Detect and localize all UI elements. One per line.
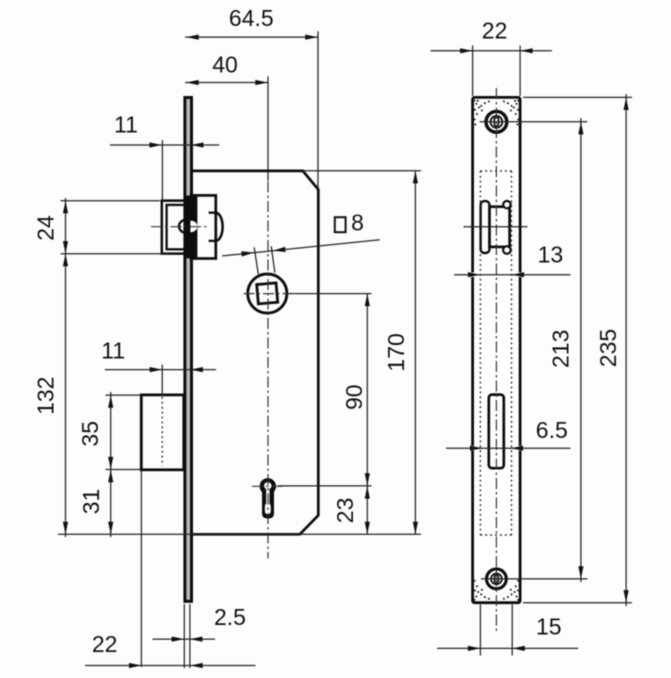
svg-text:13: 13 — [538, 242, 564, 268]
svg-text:35: 35 — [77, 421, 103, 447]
svg-text:64.5: 64.5 — [229, 5, 274, 31]
svg-text:40: 40 — [212, 52, 238, 78]
svg-text:90: 90 — [341, 384, 367, 410]
svg-text:6.5: 6.5 — [536, 417, 568, 443]
svg-text:213: 213 — [547, 330, 573, 368]
svg-text:170: 170 — [383, 333, 409, 371]
svg-text:31: 31 — [78, 489, 104, 515]
svg-text:24: 24 — [33, 215, 59, 241]
svg-text:15: 15 — [536, 614, 562, 640]
svg-text:22: 22 — [482, 18, 508, 44]
svg-text:23: 23 — [332, 498, 358, 524]
svg-text:235: 235 — [595, 329, 621, 367]
svg-text:22: 22 — [92, 631, 118, 657]
svg-text:132: 132 — [33, 377, 59, 415]
svg-text:2.5: 2.5 — [214, 604, 246, 630]
svg-text:8: 8 — [351, 210, 364, 236]
svg-text:11: 11 — [114, 111, 138, 137]
svg-text:11: 11 — [101, 338, 125, 364]
